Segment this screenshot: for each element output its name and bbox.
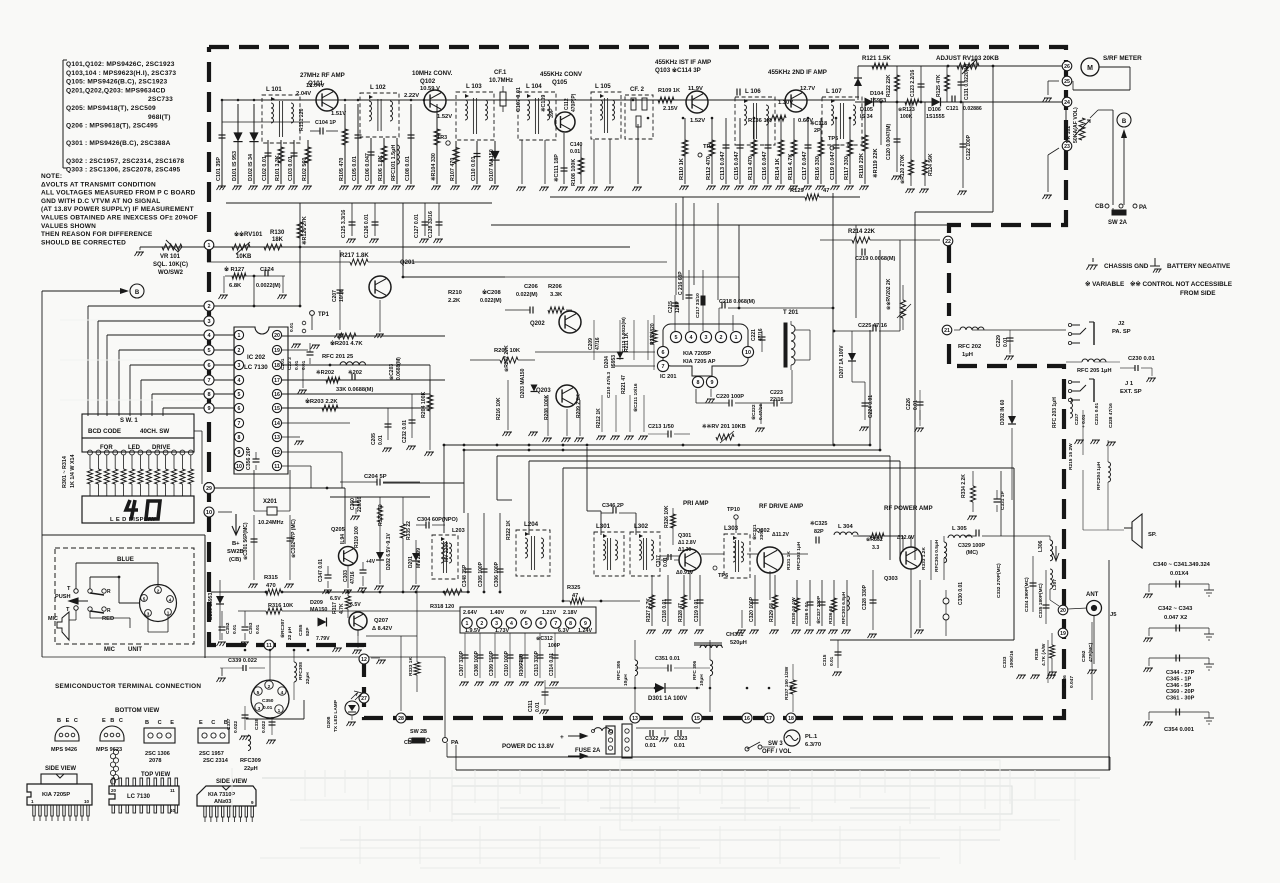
svg-text:R214 22K: R214 22K (848, 229, 876, 235)
svg-text:520μH: 520μH (730, 640, 747, 646)
svg-text:D208: D208 (326, 716, 332, 728)
svg-text:※C312: ※C312 (536, 635, 553, 642)
svg-text:1: 1 (735, 335, 738, 341)
svg-text:0.047: 0.047 (1069, 676, 1075, 688)
svg-text:Q301 : MPS9426(B.C), 2SC388A: Q301 : MPS9426(B.C), 2SC388A (66, 140, 171, 147)
svg-text:(MC): (MC) (966, 550, 978, 556)
svg-text:ANT: ANT (1086, 592, 1099, 598)
svg-text:R106 1.8K: R106 1.8K (378, 155, 384, 181)
svg-text:※ R127: ※ R127 (224, 265, 244, 273)
svg-text:10: 10 (745, 350, 751, 356)
svg-text:RFC204 1μH: RFC204 1μH (1096, 461, 1102, 490)
svg-text:R338: R338 (1034, 648, 1040, 660)
svg-text:C329 100P: C329 100P (958, 543, 985, 549)
svg-text:9: 9 (711, 380, 714, 386)
svg-text:R216 10K: R216 10K (496, 397, 502, 420)
svg-text:C125 3.3/16: C125 3.3/16 (341, 210, 347, 238)
svg-text:C338: C338 (254, 718, 260, 730)
svg-text:LED: LED (128, 445, 141, 451)
svg-text:※C301 56P(MC): ※C301 56P(MC) (242, 522, 249, 560)
svg-text:Q301: Q301 (678, 533, 691, 539)
svg-text:FROM SIDE: FROM SIDE (1180, 290, 1216, 297)
svg-text:0.01X4: 0.01X4 (1170, 571, 1189, 577)
svg-text:47: 47 (823, 188, 829, 194)
svg-text:C227: C227 (1074, 413, 1080, 425)
svg-text:PA: PA (1139, 205, 1148, 211)
svg-text:Q101,Q102: MPS9426C, 2SC1923: Q101,Q102: MPS9426C, 2SC1923 (66, 61, 175, 68)
svg-text:R136 1K: R136 1K (748, 118, 772, 124)
svg-text:R210: R210 (448, 290, 462, 296)
svg-text:C360: C360 (350, 498, 356, 510)
svg-text:D209: D209 (310, 600, 323, 606)
svg-text:D104: D104 (870, 91, 884, 97)
svg-text:R328 47: R328 47 (678, 603, 684, 622)
svg-text:C304 60P(NPO): C304 60P(NPO) (417, 517, 458, 523)
svg-text:15: 15 (274, 406, 280, 412)
svg-text:C311: C311 (528, 700, 534, 712)
svg-text:4: 4 (169, 598, 172, 603)
svg-text:T 201: T 201 (783, 310, 799, 316)
svg-text:C335 180P(MC): C335 180P(MC) (1038, 583, 1044, 618)
svg-text:C228 47/16: C228 47/16 (1108, 403, 1114, 428)
svg-text:4: 4 (690, 335, 693, 341)
svg-text:470: 470 (266, 583, 276, 589)
svg-text:※R201 4.7K: ※R201 4.7K (330, 339, 363, 347)
svg-text:R117 330: R117 330 (844, 156, 850, 180)
svg-text:R204 100K: R204 100K (421, 392, 427, 418)
svg-text:16: 16 (744, 716, 750, 722)
svg-text:R209 2.2K: R209 2.2K (576, 394, 582, 418)
svg-text:C108 0.01: C108 0.01 (405, 156, 411, 181)
svg-text:※※RV202 2K: ※※RV202 2K (885, 278, 892, 310)
svg-text:ADJUST RV103 20KB: ADJUST RV103 20KB (936, 55, 999, 62)
svg-text:Q303 : 2SC1306, 2SC2078, 2SC49: Q303 : 2SC1306, 2SC2078, 2SC495 (66, 167, 180, 174)
svg-text:R125 47K: R125 47K (936, 74, 942, 97)
svg-text:3: 3 (147, 612, 150, 617)
svg-text:455KHz CONV: 455KHz CONV (540, 71, 583, 78)
svg-text:C224 0.01: C224 0.01 (868, 395, 874, 418)
svg-text:47/16: 47/16 (595, 337, 601, 350)
svg-text:IC 201: IC 201 (660, 374, 676, 380)
svg-text:24: 24 (1064, 100, 1070, 106)
svg-text:R206: R206 (548, 284, 563, 290)
svg-text:TP5: TP5 (828, 136, 838, 142)
svg-text:Q201,Q202,Q203: MPS9634CD: Q201,Q202,Q203: MPS9634CD (66, 87, 166, 94)
svg-text:0.01: 0.01 (378, 435, 384, 445)
svg-text:VALUES OBTAINED ARE INEXCESS O: VALUES OBTAINED ARE INEXCESS OF± 20%OF (41, 215, 198, 222)
svg-text:11: 11 (274, 464, 280, 470)
svg-text:C360 - 20P: C360 - 20P (1166, 689, 1195, 695)
svg-text:RF DRIVE AMP: RF DRIVE AMP (759, 503, 803, 510)
svg-text:R101 3.3K: R101 3.3K (275, 155, 281, 181)
svg-text:10KB: 10KB (236, 254, 252, 260)
svg-text:3: 3 (207, 319, 210, 325)
svg-text:6.8K: 6.8K (229, 283, 242, 289)
svg-text:19: 19 (1060, 631, 1066, 637)
svg-text:KIA 7205P: KIA 7205P (42, 792, 70, 798)
svg-text:C206: C206 (524, 284, 539, 290)
svg-text:R337 150 1/2W: R337 150 1/2W (784, 666, 790, 700)
svg-text:R: R (107, 589, 111, 595)
svg-text:R301 ~ R314: R301 ~ R314 (62, 456, 68, 488)
svg-text:TR3: TR3 (437, 135, 447, 141)
svg-text:TX LED LAMP: TX LED LAMP (333, 699, 339, 732)
svg-text:※R104 330: ※R104 330 (430, 153, 437, 181)
svg-text:22μH: 22μH (518, 653, 523, 665)
svg-text:R115 4.7K: R115 4.7K (788, 154, 794, 180)
svg-text:DRIVE: DRIVE (152, 445, 170, 451)
svg-text:5: 5 (257, 690, 260, 696)
svg-text:L307: L307 (1052, 579, 1058, 590)
svg-text:R122 22K: R122 22K (886, 74, 892, 97)
svg-text:C107 0.01: C107 0.01 (516, 87, 522, 112)
svg-text:R102 560: R102 560 (302, 158, 308, 181)
svg-text:L303: L303 (724, 525, 739, 532)
svg-text:R105 470: R105 470 (339, 158, 345, 181)
svg-text:D107 MA150: D107 MA150 (489, 149, 495, 181)
svg-text:1: 1 (167, 611, 170, 616)
svg-text:0.022(M): 0.022(M) (480, 298, 502, 304)
svg-text:PUSH: PUSH (55, 594, 71, 600)
svg-text:C213 1/50: C213 1/50 (648, 424, 674, 430)
svg-text:※R207 27K: ※R207 27K (503, 345, 510, 372)
svg-text:(AT 13.8V POWER SUPPLY) IF MEA: (AT 13.8V POWER SUPPLY) IF MEASUREMENT (41, 206, 194, 213)
svg-text:12: 12 (274, 450, 280, 456)
svg-text:C112: C112 (564, 98, 570, 110)
svg-text:1.30V: 1.30V (778, 100, 793, 106)
svg-text:R319 100: R319 100 (354, 526, 360, 548)
svg-text:20: 20 (274, 333, 280, 339)
svg-text:C353: C353 (248, 622, 254, 634)
svg-text:IL94: IL94 (340, 534, 346, 544)
svg-text:TP4: TP4 (703, 144, 714, 150)
svg-text:RED: RED (102, 616, 114, 622)
svg-text:Δ1 2.8V: Δ1 2.8V (678, 540, 697, 546)
svg-text:11: 11 (170, 788, 175, 793)
svg-text:+4V: +4V (366, 559, 376, 565)
svg-text:B C E: B C E (145, 720, 177, 726)
svg-text:R334 2.2K: R334 2.2K (961, 474, 967, 498)
svg-text:R131 220: R131 220 (299, 108, 305, 131)
svg-text:C342 ~ C343: C342 ~ C343 (1158, 606, 1193, 612)
svg-text:※RC307: ※RC307 (279, 619, 286, 638)
svg-text:1: 1 (278, 708, 281, 714)
svg-text:C315: C315 (822, 654, 828, 666)
svg-text:※C208: ※C208 (482, 288, 501, 296)
svg-text:CF. 2: CF. 2 (630, 87, 645, 93)
svg-text:R322 1K: R322 1K (506, 520, 512, 540)
svg-text:2: 2 (238, 348, 241, 354)
svg-text:0.0022(M): 0.0022(M) (256, 283, 281, 289)
svg-text:7: 7 (207, 378, 210, 384)
svg-text:5: 5 (207, 348, 210, 354)
svg-text:2SC 1306: 2SC 1306 (145, 751, 170, 757)
svg-text:RFC 201 25: RFC 201 25 (322, 354, 354, 360)
svg-text:VR 102: VR 102 (1066, 126, 1072, 143)
svg-text:TP1: TP1 (318, 312, 330, 318)
svg-text:RFC 306: RFC 306 (692, 660, 698, 680)
svg-text:※※RV 201 10KB: ※※RV 201 10KB (702, 422, 746, 430)
svg-text:D105: D105 (860, 107, 873, 113)
svg-text:C140: C140 (570, 142, 583, 148)
svg-text:C102 0.01: C102 0.01 (262, 156, 268, 181)
svg-text:R333 1.2K: R333 1.2K (921, 547, 927, 570)
svg-text:10/16: 10/16 (339, 289, 345, 302)
svg-text:C308 100P: C308 100P (474, 650, 480, 676)
svg-text:SP.: SP. (1148, 532, 1157, 538)
svg-text:14: 14 (274, 421, 280, 427)
svg-text:TP10: TP10 (727, 507, 740, 513)
svg-text:Q205: Q205 (331, 527, 345, 533)
svg-text:SEMICONDUCTOR TERMINAL CON: SEMICONDUCTOR TERMINAL CONNECTION (55, 683, 201, 690)
svg-text:C322: C322 (645, 736, 658, 742)
svg-text:0.01: 0.01 (570, 149, 580, 155)
svg-text:8: 8 (207, 392, 210, 398)
svg-text:C356 20P: C356 20P (246, 446, 252, 470)
svg-text:Δ1.30: Δ1.30 (678, 547, 692, 553)
svg-text:R330 10 1W: R330 10 1W (791, 597, 797, 624)
svg-text:C103 0.01: C103 0.01 (288, 156, 294, 181)
svg-text:0.01: 0.01 (263, 705, 273, 711)
svg-text:L 102: L 102 (370, 84, 386, 91)
svg-text:CB: CB (404, 740, 412, 746)
svg-text:OFF / VOL: OFF / VOL (762, 749, 792, 755)
svg-text:Δ0.91V: Δ0.91V (676, 570, 694, 576)
svg-text:20: 20 (1060, 608, 1066, 614)
svg-text:C128 33/16: C128 33/16 (428, 211, 434, 238)
svg-text:C22 3: C22 3 (287, 357, 293, 370)
svg-text:L301: L301 (596, 523, 611, 530)
svg-text:C120 0.0047(M): C120 0.0047(M) (886, 124, 892, 160)
svg-text:0.02886: 0.02886 (963, 106, 982, 112)
svg-text:※C325: ※C325 (810, 520, 827, 527)
svg-text:4: 4 (510, 621, 513, 627)
svg-text:−: − (560, 754, 564, 761)
svg-text:ΔVOLTS AT TRANSMIT CONDITION: ΔVOLTS AT TRANSMIT CONDITION (41, 181, 156, 188)
svg-text:Δ12.6V: Δ12.6V (897, 535, 915, 541)
svg-text:C210 47/6.3: C210 47/6.3 (606, 372, 612, 398)
svg-text:50KA(AF VOL): 50KA(AF VOL) (1073, 107, 1079, 143)
svg-text:0.022: 0.022 (233, 721, 239, 733)
svg-text:SIDE VIEW: SIDE VIEW (45, 766, 76, 772)
svg-text:7.79V: 7.79V (316, 636, 330, 642)
svg-text:10: 10 (206, 510, 212, 516)
svg-text:RFC302 1μH: RFC302 1μH (796, 541, 802, 570)
svg-text:2078: 2078 (149, 758, 161, 764)
svg-text:C122 100P: C122 100P (966, 134, 972, 160)
svg-text:C326 0.01: C326 0.01 (804, 602, 810, 624)
svg-text:SW 3: SW 3 (768, 741, 783, 747)
svg-text:C201: C201 (280, 358, 286, 370)
svg-text:Q105: MPS9426(B.C), 2SC1923: Q105: MPS9426(B.C), 2SC1923 (66, 79, 168, 86)
svg-text:4: 4 (281, 690, 284, 696)
svg-text:R315: R315 (264, 575, 279, 581)
svg-text:0.01: 0.01 (645, 743, 656, 749)
svg-text:R130: R130 (270, 230, 285, 236)
svg-text:D203 MA150: D203 MA150 (520, 368, 526, 398)
svg-text:C339 0.022: C339 0.022 (228, 658, 257, 664)
svg-text:2.2K: 2.2K (448, 298, 461, 304)
svg-text:26: 26 (1064, 64, 1070, 70)
svg-text:C232 0.01: C232 0.01 (402, 420, 408, 443)
svg-text:39P: 39P (549, 108, 555, 118)
svg-text:Q201: Q201 (400, 260, 415, 266)
svg-text:PRI AMP: PRI AMP (683, 500, 709, 507)
svg-text:8: 8 (697, 380, 700, 386)
svg-text:C 216 68P: C 216 68P (678, 271, 684, 295)
svg-text:BOTTOM VIEW: BOTTOM VIEW (115, 707, 159, 714)
svg-text:RFC 203 1μH: RFC 203 1μH (1052, 397, 1058, 428)
svg-text:7: 7 (554, 621, 557, 627)
svg-text:KIA 7205P: KIA 7205P (683, 351, 711, 357)
svg-text:6.5V: 6.5V (350, 602, 361, 608)
svg-text:L302: L302 (634, 523, 649, 530)
svg-text:L 104: L 104 (526, 83, 542, 90)
svg-text:CH301: CH301 (726, 632, 743, 638)
svg-text:※※ CONTROL NOT ACCESSIBLE: ※※ CONTROL NOT ACCESSIBLE (1130, 280, 1233, 288)
svg-text:17: 17 (766, 716, 772, 722)
svg-text:C119 0.047: C119 0.047 (830, 151, 836, 180)
svg-text:2.18V: 2.18V (563, 610, 577, 616)
svg-text:R317: R317 (332, 602, 338, 614)
svg-text:VR 101: VR 101 (160, 254, 181, 260)
svg-text:Q203: Q203 (536, 388, 551, 394)
svg-text:29: 29 (206, 486, 212, 492)
svg-text:Q102: Q102 (420, 78, 436, 85)
svg-text:C124: C124 (260, 267, 275, 273)
svg-text:C303: C303 (343, 570, 349, 582)
svg-text:3: 3 (705, 335, 708, 341)
svg-text:10μH: 10μH (699, 674, 705, 686)
svg-text:25: 25 (1064, 79, 1070, 85)
svg-text:CF.1: CF.1 (494, 70, 507, 76)
svg-text:C204 5P: C204 5P (364, 474, 387, 480)
svg-text:D301 1A 100V: D301 1A 100V (648, 696, 687, 702)
svg-text:C340 ~ C341.349.324: C340 ~ C341.349.324 (1153, 562, 1211, 568)
svg-text:10.59 V: 10.59 V (420, 86, 440, 92)
svg-text:Q207: Q207 (374, 618, 388, 624)
svg-text:C104 1P: C104 1P (315, 120, 336, 126)
svg-text:MIC: MIC (104, 647, 116, 653)
svg-text:E B C: E B C (102, 718, 124, 724)
svg-text:S/RF METER: S/RF METER (1103, 55, 1142, 62)
svg-text:Q103,104 : MPS9623(H.I), 2SC37: Q103,104 : MPS9623(H.I), 2SC373 (66, 70, 176, 77)
svg-text:C309 150P: C309 150P (489, 650, 495, 676)
svg-text:455KHz IST IF AMP: 455KHz IST IF AMP (655, 59, 711, 66)
svg-text:R121 1.5K: R121 1.5K (862, 56, 891, 62)
svg-text:470P(P): 470P(P) (571, 93, 577, 112)
svg-text:C226: C226 (906, 398, 912, 410)
svg-text:2.04V: 2.04V (296, 91, 311, 97)
svg-text:TOP VIEW: TOP VIEW (141, 772, 170, 778)
svg-text:3: 3 (258, 706, 261, 712)
svg-text:5: 5 (143, 597, 146, 602)
svg-text:C306 100P: C306 100P (494, 561, 500, 587)
svg-text:19: 19 (274, 348, 280, 354)
svg-text:0.01: 0.01 (829, 656, 835, 666)
svg-text:L 103: L 103 (466, 83, 482, 90)
svg-text:3: 3 (238, 363, 241, 369)
svg-text:R118 22K: R118 22K (859, 153, 865, 178)
svg-text:2SC733: 2SC733 (148, 96, 173, 103)
svg-text:C223: C223 (770, 390, 783, 396)
svg-text:21: 21 (944, 328, 950, 334)
svg-text:※C211 10/16: ※C211 10/16 (632, 383, 639, 412)
svg-text:C330 0.01: C330 0.01 (958, 582, 964, 605)
svg-text:※※RV101: ※※RV101 (234, 230, 263, 238)
svg-text:C305 100P: C305 100P (478, 561, 484, 587)
svg-text:C331 1P: C331 1P (1000, 491, 1006, 510)
svg-text:RFC 305: RFC 305 (616, 660, 622, 680)
svg-text:C127 0.01: C127 0.01 (414, 214, 420, 238)
svg-text:2: 2 (720, 335, 723, 341)
svg-text:10: 10 (84, 799, 90, 804)
svg-text:22: 22 (945, 239, 951, 245)
svg-text:6.3V: 6.3V (558, 628, 569, 634)
svg-text:C205: C205 (371, 433, 377, 445)
svg-text:C318 0.01: C318 0.01 (662, 599, 668, 622)
svg-text:3.3: 3.3 (872, 545, 879, 551)
svg-text:1: 1 (31, 799, 34, 804)
svg-text:8: 8 (238, 435, 241, 441)
svg-text:LC 7130: LC 7130 (127, 794, 151, 800)
svg-text:KIA 7310P: KIA 7310P (208, 792, 235, 798)
svg-text:R112 470: R112 470 (706, 156, 712, 180)
svg-text:Q103 ※C114 3P: Q103 ※C114 3P (655, 66, 701, 74)
svg-text:R108 100K: R108 100K (571, 159, 577, 186)
svg-text:※C203: ※C203 (388, 364, 395, 380)
svg-text:L 305: L 305 (952, 526, 967, 532)
svg-text:27: 27 (361, 696, 367, 702)
svg-text:1000/16: 1000/16 (1009, 650, 1015, 668)
svg-text:C323: C323 (674, 736, 687, 742)
svg-text:1.51V: 1.51V (331, 111, 346, 117)
svg-text:R114 1K: R114 1K (775, 158, 781, 180)
svg-text:C116 0.047: C116 0.047 (762, 151, 768, 180)
svg-text:C345 - 1P: C345 - 1P (1166, 676, 1191, 682)
svg-text:※C111 18P: ※C111 18P (553, 154, 560, 182)
svg-text:EXT. SP: EXT. SP (1120, 389, 1142, 395)
svg-text:22μH: 22μH (305, 672, 311, 684)
svg-text:15: 15 (694, 716, 700, 722)
svg-text:12: 12 (361, 657, 367, 663)
svg-text:D302 IN 60: D302 IN 60 (1000, 399, 1006, 425)
svg-text:C317: C317 (656, 555, 662, 567)
svg-text:LC 7130: LC 7130 (244, 364, 268, 371)
svg-text:D201: D201 (408, 556, 414, 568)
svg-text:Q202: Q202 (530, 321, 545, 327)
svg-text:13: 13 (274, 435, 280, 441)
svg-text:1.21V: 1.21V (542, 610, 556, 616)
svg-text:47P(MC): 47P(MC) (1088, 642, 1094, 662)
svg-text:L 106: L 106 (745, 88, 761, 95)
svg-text:10: 10 (170, 808, 176, 813)
svg-text:0.01: 0.01 (255, 624, 261, 634)
svg-text:R318 120: R318 120 (430, 604, 454, 610)
svg-text:CB: CB (1095, 204, 1104, 210)
svg-text:1S1555: 1S1555 (926, 114, 945, 120)
svg-text:RF POWER AMP: RF POWER AMP (884, 505, 933, 512)
svg-text:11: 11 (266, 643, 272, 649)
svg-text:※R120 270K: ※R120 270K (899, 154, 906, 184)
svg-text:R335 22: R335 22 (406, 521, 412, 540)
svg-text:FUSE 2A: FUSE 2A (575, 748, 601, 754)
svg-text:J 1: J 1 (1125, 381, 1134, 387)
svg-text:※R119 22K: ※R119 22K (871, 148, 879, 178)
svg-text:6.3/70: 6.3/70 (805, 742, 821, 748)
svg-text:C362: C362 (1081, 650, 1087, 662)
svg-text:Q303: Q303 (884, 576, 898, 582)
